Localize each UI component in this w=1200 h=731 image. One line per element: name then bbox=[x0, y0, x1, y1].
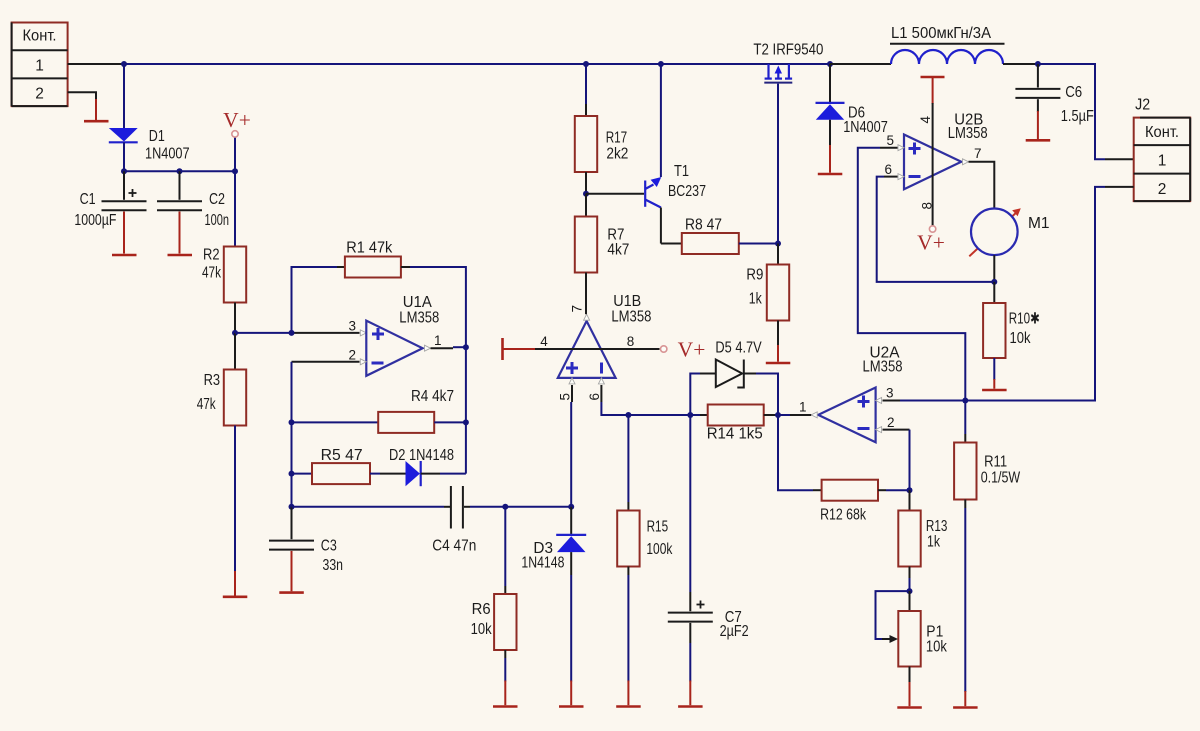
svg-text:R17: R17 bbox=[606, 130, 628, 147]
svg-text:D1: D1 bbox=[149, 128, 165, 145]
wire U2A output to node bbox=[778, 414, 811, 416]
resistor R8 47 bbox=[661, 217, 778, 255]
svg-text:2: 2 bbox=[35, 86, 44, 103]
ground J1 pin 2 bbox=[84, 99, 109, 121]
op-amp U2A LM358 bbox=[818, 344, 902, 442]
wire U2A pin3 bbox=[883, 400, 966, 402]
svg-text:2: 2 bbox=[348, 347, 356, 362]
node junction C3 / long wire bbox=[289, 504, 295, 510]
wire U1A output bbox=[431, 347, 466, 348]
ground C1 bbox=[112, 254, 137, 257]
diode D3 1N4148 bbox=[521, 507, 586, 705]
svg-text:D5 4.7V: D5 4.7V bbox=[715, 340, 762, 357]
wire R2 bottom to node bbox=[234, 303, 236, 333]
svg-text:R1 47k: R1 47k bbox=[346, 240, 392, 257]
svg-text:3: 3 bbox=[348, 318, 356, 333]
ground R9 bbox=[766, 362, 791, 365]
node junction R6 tap bbox=[502, 504, 508, 510]
wire J1 pin 2 to ground bbox=[68, 92, 96, 100]
wire R17 to R7 node bbox=[585, 172, 587, 194]
svg-text:10k: 10k bbox=[1010, 330, 1031, 347]
svg-text:1N4007: 1N4007 bbox=[145, 146, 190, 163]
node junction D1 tap bbox=[121, 61, 127, 67]
svg-text:C2: C2 bbox=[209, 191, 225, 208]
resistor R17 2k2 bbox=[575, 64, 629, 172]
diode D1 1N4007 bbox=[109, 64, 190, 171]
svg-text:2: 2 bbox=[1158, 181, 1167, 198]
node junction R15 tap bbox=[625, 412, 631, 418]
resistor R1 47k bbox=[337, 240, 410, 278]
wire output rail bbox=[465, 347, 467, 473]
node junction D6 tap bbox=[827, 61, 833, 67]
svg-text:R6: R6 bbox=[472, 601, 491, 618]
wire U1B pin7 to R7 bbox=[585, 273, 587, 315]
svg-text:1.5µF: 1.5µF bbox=[1061, 108, 1094, 125]
svg-text:D2 1N4148: D2 1N4148 bbox=[389, 447, 454, 464]
node junction R5 left bbox=[289, 471, 295, 477]
node junction R2/R3 bbox=[232, 330, 238, 336]
svg-text:R3: R3 bbox=[204, 372, 221, 389]
svg-text:1N4007: 1N4007 bbox=[843, 119, 888, 136]
capacitor C7 2µF2 bbox=[668, 415, 749, 705]
wire R1 right leg bbox=[410, 267, 466, 347]
transistor T1 BC237 bbox=[645, 64, 706, 244]
svg-text:0.1/5W: 0.1/5W bbox=[981, 470, 1021, 487]
resistor R12 68k bbox=[813, 480, 910, 524]
svg-text:7: 7 bbox=[570, 305, 585, 313]
motor M1 bbox=[969, 208, 1049, 256]
svg-text:5: 5 bbox=[886, 133, 894, 148]
svg-text:33n: 33n bbox=[323, 557, 344, 574]
wire U1B pin6 down and right bbox=[601, 385, 700, 415]
wire U2B pin7 to M1 bbox=[969, 162, 995, 209]
svg-text:C4 47n: C4 47n bbox=[432, 538, 476, 555]
svg-text:LM358: LM358 bbox=[399, 310, 439, 327]
node junction D3 / U1B pin5 bbox=[568, 504, 574, 510]
svg-text:R8 47: R8 47 bbox=[685, 217, 722, 234]
wire D5 cathode to R14 right rail bbox=[756, 374, 778, 416]
wire C6 node to J2 pin1 bbox=[1038, 64, 1134, 159]
potentiometer P1 10k bbox=[882, 591, 947, 706]
svg-text:2: 2 bbox=[887, 415, 895, 430]
node junction R17/R7/T1 base bbox=[583, 191, 589, 197]
svg-text:R2: R2 bbox=[203, 247, 220, 264]
svg-text:R11: R11 bbox=[984, 454, 1007, 471]
capacitor C1 1000µF bbox=[74, 171, 146, 253]
wire U2B pin6 feedback bbox=[877, 177, 995, 282]
svg-text:V+: V+ bbox=[223, 108, 251, 132]
mosfet T2 IRF9540 bbox=[753, 42, 823, 83]
wire U1B pin5 down bbox=[570, 385, 573, 507]
pin marker U1B pin5 bbox=[569, 378, 575, 384]
resistor R4 4k7 bbox=[292, 388, 466, 433]
node junction output rail top bbox=[463, 344, 469, 350]
svg-text:R10✱: R10✱ bbox=[1009, 311, 1040, 328]
ground R3 bbox=[223, 595, 248, 598]
diode D6 1N4007 bbox=[816, 64, 888, 173]
ground R11 bbox=[953, 706, 978, 709]
svg-text:8: 8 bbox=[627, 334, 635, 349]
svg-text:1: 1 bbox=[799, 400, 807, 415]
ground D3 bbox=[559, 705, 584, 708]
pin marker U2A pin3 bbox=[876, 398, 882, 404]
wire U2B pin5 feedback bbox=[858, 148, 966, 401]
ground C2 bbox=[168, 254, 193, 257]
inductor L1 500мкГн/3А bbox=[890, 25, 1005, 64]
ground C3 bbox=[279, 591, 304, 594]
ground U1B pin4 bbox=[503, 338, 537, 360]
wire J1 pin 1 to top rail bbox=[68, 63, 124, 65]
node junction R1 left / pin3 bbox=[289, 330, 295, 336]
node junction R4 left / pin2 bbox=[289, 419, 295, 425]
node junction R14/D5/U2A out bbox=[775, 412, 781, 418]
svg-text:6: 6 bbox=[884, 162, 892, 177]
wire U1A pin 2 bbox=[292, 362, 360, 423]
node junction R12/R13/pin2 bbox=[907, 487, 913, 493]
wire D5 branch up bbox=[690, 374, 700, 416]
svg-text:4: 4 bbox=[918, 116, 933, 124]
resistor R9 1k bbox=[746, 244, 789, 362]
svg-text:7: 7 bbox=[974, 146, 982, 161]
svg-text:3: 3 bbox=[886, 386, 894, 401]
svg-text:R9: R9 bbox=[746, 267, 763, 284]
wire U2B pin4 bbox=[932, 103, 934, 226]
svg-text:LM358: LM358 bbox=[948, 125, 988, 142]
node junction V+/R2 tap bbox=[232, 168, 238, 174]
pin marker U2A pin2 bbox=[876, 427, 882, 433]
wire C4 to R6/D3 nodes bbox=[464, 506, 571, 508]
svg-text:LM358: LM358 bbox=[611, 309, 651, 326]
svg-text:C1: C1 bbox=[80, 191, 96, 208]
svg-text:R4 4k7: R4 4k7 bbox=[411, 388, 454, 405]
wire T1 base bbox=[586, 193, 644, 195]
svg-text:10k: 10k bbox=[471, 621, 492, 638]
ground P1 bbox=[897, 706, 922, 709]
wire node down to R12 bbox=[778, 415, 813, 490]
svg-text:8: 8 bbox=[920, 202, 935, 210]
node V+ terminal bbox=[223, 108, 251, 171]
svg-text:1N4148: 1N4148 bbox=[521, 555, 564, 572]
op-amp U1A LM358 bbox=[366, 294, 439, 376]
resistor R5 47 bbox=[292, 447, 371, 484]
svg-text:5: 5 bbox=[558, 393, 573, 401]
ground U2B pin4 bbox=[921, 77, 945, 104]
wire top rail left bbox=[124, 63, 660, 65]
op-amp U1B LM358 bbox=[558, 293, 652, 378]
node junction T1 collector tap bbox=[658, 61, 664, 67]
pin marker U1A pin1 output bbox=[425, 345, 431, 351]
svg-text:T1: T1 bbox=[674, 163, 689, 180]
svg-text:R15: R15 bbox=[647, 519, 669, 536]
svg-text:R5 47: R5 47 bbox=[321, 447, 363, 464]
capacitor C4 47n bbox=[432, 486, 476, 555]
svg-text:BC237: BC237 bbox=[668, 183, 706, 200]
svg-text:4: 4 bbox=[540, 334, 548, 349]
resistor R7 4k7 bbox=[575, 194, 630, 273]
svg-text:4k7: 4k7 bbox=[607, 241, 629, 258]
svg-text:J2: J2 bbox=[1135, 97, 1150, 114]
svg-text:10k: 10k bbox=[926, 639, 947, 656]
svg-text:R13: R13 bbox=[926, 518, 948, 535]
ground C6 bbox=[1026, 139, 1051, 142]
wire R1 left leg bbox=[292, 267, 338, 333]
capacitor C3 33n bbox=[269, 507, 343, 592]
svg-text:100n: 100n bbox=[205, 212, 230, 229]
wire long oscillator output bbox=[292, 506, 451, 508]
wire T2 gate down to R8/R9 node bbox=[777, 84, 779, 244]
wire V+ rail bbox=[124, 170, 235, 172]
node junction M1/R10/pin6 bbox=[991, 279, 997, 285]
node V+ terminal U2B bbox=[917, 226, 945, 255]
wire U2A pin2 bbox=[883, 430, 910, 491]
ground C7 bbox=[678, 705, 703, 708]
connector J1 (left, Конт.) bbox=[12, 23, 68, 107]
wire pin2 rail down bbox=[291, 422, 293, 506]
wire T2 drain to D6 node bbox=[789, 63, 830, 65]
svg-text:1: 1 bbox=[1158, 153, 1167, 170]
node junction R13/P1 wiper bbox=[907, 588, 913, 594]
node V+ terminal U1B bbox=[661, 338, 706, 362]
svg-text:1: 1 bbox=[434, 333, 442, 348]
resistor R11 0.1/5W bbox=[954, 401, 1020, 707]
node junction C6 tap bbox=[1035, 61, 1041, 67]
node junction D5/C7 tap bbox=[687, 412, 693, 418]
capacitor C2 100n bbox=[157, 171, 229, 253]
pin marker U2A pin1 output bbox=[811, 412, 817, 418]
wire M1 to R10 node bbox=[993, 255, 995, 282]
ground R6 bbox=[493, 705, 518, 708]
wire top rail to T2 bbox=[661, 63, 769, 65]
ground D6 bbox=[818, 173, 843, 176]
ground R15 bbox=[616, 705, 641, 708]
resistor R14 1k5 bbox=[700, 405, 778, 443]
resistor R3 47k bbox=[197, 333, 247, 426]
svg-text:C3: C3 bbox=[321, 538, 337, 555]
svg-text:L1 500мкГн/3А: L1 500мкГн/3А bbox=[891, 25, 992, 42]
wire R2/R3 node to U1A pin 3 bbox=[235, 332, 360, 334]
node junction D1-C1 bbox=[121, 168, 127, 174]
svg-text:1k: 1k bbox=[927, 533, 940, 550]
wire top rail across T2 bbox=[764, 63, 795, 65]
resistor R6 10k bbox=[471, 507, 517, 705]
svg-text:2k2: 2k2 bbox=[606, 146, 628, 163]
svg-text:M1: M1 bbox=[1028, 215, 1050, 232]
resistor R13 1k bbox=[898, 490, 947, 591]
op-amp U2B LM358 bbox=[904, 112, 988, 190]
pin marker U2B pin5 bbox=[898, 145, 904, 151]
ground R10 bbox=[982, 389, 1007, 392]
svg-text:Конт.: Конт. bbox=[23, 28, 57, 45]
pin marker U2B pin7 output bbox=[963, 159, 969, 165]
svg-text:Конт.: Конт. bbox=[1145, 124, 1179, 141]
diode D5 4.7V zener bbox=[700, 340, 762, 388]
node junction C2 tap bbox=[177, 168, 183, 174]
wire D6 node to L1 bbox=[830, 63, 891, 65]
svg-text:2µF2: 2µF2 bbox=[720, 623, 749, 640]
svg-text:R12 68k: R12 68k bbox=[820, 507, 866, 524]
connector J2 (right, Конт.) bbox=[1134, 97, 1191, 202]
svg-text:R14 1k5: R14 1k5 bbox=[707, 426, 763, 443]
svg-text:C6: C6 bbox=[1065, 84, 1082, 101]
node junction R17 tap bbox=[583, 61, 589, 67]
wire P1 wiper loop bbox=[876, 591, 910, 639]
svg-text:V+: V+ bbox=[917, 231, 945, 255]
resistor R10 10k bbox=[983, 282, 1040, 389]
svg-text:1: 1 bbox=[35, 58, 44, 75]
node junction R4 right bbox=[463, 419, 469, 425]
svg-text:T2 IRF9540: T2 IRF9540 bbox=[753, 42, 823, 59]
svg-text:47k: 47k bbox=[202, 265, 221, 282]
pin marker U2B pin6 bbox=[898, 174, 904, 180]
svg-text:1000µF: 1000µF bbox=[74, 212, 116, 229]
pin marker U1A pin2 bbox=[360, 359, 366, 365]
diode D2 1N4148 bbox=[370, 447, 466, 486]
resistor R2 47k bbox=[202, 171, 246, 302]
wire U1B pin4 bbox=[535, 348, 660, 350]
wire J2 pin2 to R11 rail bbox=[965, 187, 1133, 401]
svg-text:LM358: LM358 bbox=[863, 359, 903, 376]
wire L1 to C6 node bbox=[1003, 63, 1038, 65]
node junction R11/J2/U2B feedback bbox=[962, 398, 968, 404]
pin marker U1B pin7 bbox=[584, 314, 590, 320]
svg-text:100k: 100k bbox=[646, 541, 672, 558]
resistor R15 100k bbox=[617, 415, 672, 705]
svg-text:6: 6 bbox=[587, 393, 602, 401]
pin marker U1A pin3 bbox=[360, 330, 366, 336]
svg-text:47k: 47k bbox=[197, 396, 216, 413]
capacitor C6 1.5µF bbox=[1015, 64, 1093, 139]
svg-text:1k: 1k bbox=[749, 291, 762, 308]
wire R3 bottom to ground bbox=[234, 426, 236, 596]
pin marker U1B pin6 bbox=[598, 378, 604, 384]
node junction R8/R9/gate bbox=[775, 241, 781, 247]
svg-text:V+: V+ bbox=[678, 338, 706, 362]
